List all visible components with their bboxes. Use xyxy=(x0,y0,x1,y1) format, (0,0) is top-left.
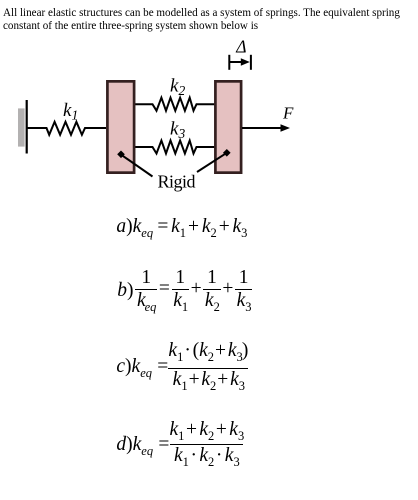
svg-text:k3: k3 xyxy=(170,119,185,141)
svg-text:F: F xyxy=(282,104,294,123)
svg-text:k1: k1 xyxy=(63,100,78,122)
svg-text:Δ: Δ xyxy=(235,37,246,57)
svg-text:Rigid: Rigid xyxy=(158,172,196,192)
svg-text:k2: k2 xyxy=(170,76,185,98)
